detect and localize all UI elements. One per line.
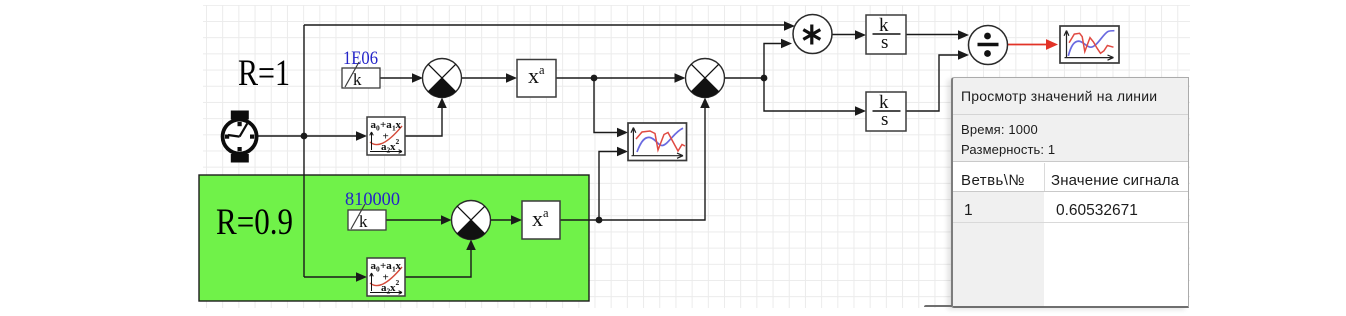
integrator I1 (k/s) (866, 15, 906, 54)
label R=1 (238, 53, 290, 94)
panel dimension row (961, 142, 1055, 157)
svg-text:x: x (396, 119, 402, 131)
panel divider under title (953, 114, 1188, 115)
panel time row (961, 122, 1038, 137)
wire polynomial P1 to summator S1 bottom (405, 98, 447, 137)
svg-text:+a: +a (380, 119, 392, 131)
wire branch up to scope SC1 input 2 (599, 147, 628, 220)
wire divider to scope SC2 (red) (1008, 39, 1059, 50)
svg-text:2: 2 (396, 278, 400, 287)
table header branch column (961, 172, 1025, 189)
panel header column divider (1044, 163, 1045, 192)
gain K2 value label 810000 (345, 189, 400, 210)
panel title (961, 88, 1157, 104)
table cell signal value (1056, 202, 1138, 220)
table cell branch 1 (964, 202, 973, 220)
svg-text:R=1: R=1 (238, 53, 290, 94)
wire integrator I1 to divider (906, 30, 969, 40)
wire gain K2 to summator S3 (386, 215, 452, 225)
node junction lower line (596, 217, 603, 224)
window edge fragment below panel (924, 305, 952, 307)
wire trunk to polynomial P2 (304, 272, 367, 282)
wire power block X1 to summator S2 (556, 73, 686, 83)
svg-text:x: x (532, 206, 543, 231)
table header value column (1051, 172, 1179, 189)
svg-text:k: k (359, 212, 368, 231)
panel table white area (953, 162, 1188, 306)
svg-text:x: x (528, 63, 539, 88)
gain K2 block (348, 204, 386, 231)
panel divider under table header (953, 191, 1188, 192)
node junction clock line (301, 133, 308, 140)
wire gain K1 to summator S1 (380, 73, 423, 83)
tooltip panel: line values viewer (951, 77, 1189, 308)
polynomial P2 block (367, 258, 405, 296)
wire trunk vertical from top corner to lower branch (303, 25, 305, 277)
wire integrator I2 to divider (906, 50, 969, 111)
svg-text:810000: 810000 (345, 189, 400, 210)
node junction after X1 (591, 75, 598, 82)
wire split up to multiplier input 2 (764, 39, 792, 78)
summator S3 (452, 201, 491, 240)
svg-text:a: a (539, 63, 545, 77)
panel divider above table (953, 161, 1188, 162)
scope SC2 (1060, 26, 1119, 63)
gain K1 value label 1E06 (343, 48, 378, 69)
clock source block (223, 111, 257, 163)
power block X2 (x^a) (522, 201, 560, 239)
svg-text:a: a (543, 206, 549, 220)
svg-text:k: k (353, 70, 362, 89)
wire branch down to scope SC1 input 1 (594, 78, 628, 137)
wire summator S3 to power block X2 (491, 215, 523, 225)
svg-text:x: x (396, 260, 402, 272)
svg-text:R=0.9: R=0.9 (216, 201, 293, 242)
svg-text:+a: +a (380, 260, 392, 272)
wire polynomial P2 to summator S3 bottom (405, 240, 476, 278)
multiplier block (*) (793, 15, 832, 54)
svg-text:1E06: 1E06 (343, 48, 378, 69)
wire summator S2 output to split (725, 77, 765, 79)
svg-text:s: s (881, 32, 888, 53)
summator S1 (423, 59, 462, 98)
svg-text:s: s (881, 109, 888, 130)
panel table fixed column (953, 192, 1044, 306)
gain K1 block (342, 62, 380, 89)
power block X1 (x^a) (517, 60, 556, 98)
scope SC1 (628, 123, 687, 161)
polynomial P1 block (367, 117, 405, 155)
svg-text:2: 2 (396, 137, 400, 146)
wire clock output to polynomial P1 (258, 131, 367, 141)
wire multiplier to integrator I1 (832, 30, 866, 40)
green subsystem box R=0.9 (199, 175, 589, 301)
wire power block X2 to summator S2 bottom (560, 98, 710, 221)
wire summator S1 to power block X1 (462, 73, 518, 83)
wire top long feed to multiplier input 1 (304, 21, 795, 31)
grid canvas background (203, 5, 1190, 308)
summator S2 (686, 59, 725, 98)
label R=0.9 (216, 201, 293, 242)
divider block (÷) (969, 26, 1008, 65)
panel divider under row 1 (953, 222, 1188, 223)
node junction after S2 (761, 75, 768, 82)
integrator I2 (k/s) (866, 92, 906, 131)
wire split down to integrator I2 (764, 78, 866, 116)
